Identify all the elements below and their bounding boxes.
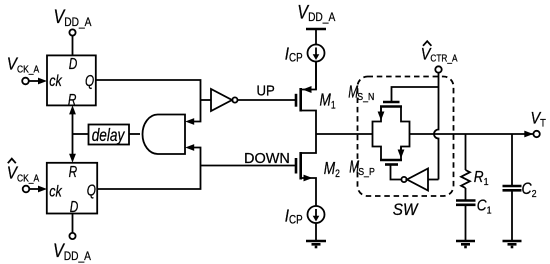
ground G-C2 xyxy=(503,240,522,243)
wire CP output node to switch xyxy=(316,133,373,135)
svg-text:S_N: S_N xyxy=(357,90,374,102)
flip-flop U1 box xyxy=(47,55,96,105)
wire VDD_A to U1 D xyxy=(72,36,74,56)
wire ICP1 to M1 drain xyxy=(315,62,317,90)
wire Q1 branch to inverter xyxy=(201,99,211,101)
resistor R1 xyxy=(461,170,470,188)
wire switch output to VT xyxy=(410,133,534,135)
svg-text:R1: R1 xyxy=(474,169,489,188)
svg-text:M2: M2 xyxy=(324,160,340,181)
transistor M2 (NMOS) xyxy=(295,158,298,174)
wire Q2 net: U2.Q to AND input xyxy=(97,148,200,190)
wire control line vertical with hop over output xyxy=(434,73,439,180)
svg-text:R: R xyxy=(69,162,78,180)
terminal VCK_A_hat xyxy=(23,186,30,193)
svg-text:VCK_A: VCK_A xyxy=(7,162,40,183)
flip-flop U2 box xyxy=(47,163,97,214)
wire VCK_A to U1 ck xyxy=(29,80,40,82)
wire VDD rail to ICP1 xyxy=(315,29,317,45)
svg-text:C1: C1 xyxy=(477,197,492,216)
wire UP: inverter to M1 gate xyxy=(238,99,296,101)
svg-text:D: D xyxy=(69,54,78,72)
wire DOWN: Q2 net to M2 gate xyxy=(201,165,296,167)
terminal VCTR_A xyxy=(435,66,441,72)
wire inverter input from control line xyxy=(428,179,439,181)
svg-text:UP: UP xyxy=(257,82,275,99)
transmission gate body wires xyxy=(373,107,382,161)
TG NMOS arrow xyxy=(380,107,382,113)
terminal VDD_A top-left xyxy=(69,29,75,35)
svg-text:D: D xyxy=(70,197,79,215)
wire VT node to R1 xyxy=(465,134,467,170)
svg-text:VCK_A: VCK_A xyxy=(7,53,40,74)
svg-text:R: R xyxy=(68,90,77,108)
AND gate G1 (mirrored, output left) xyxy=(143,115,186,155)
current source ICP2 xyxy=(308,206,325,223)
svg-text:VT: VT xyxy=(531,110,546,130)
power rail bar VDD_A xyxy=(306,28,326,31)
svg-text:Q: Q xyxy=(85,71,94,89)
wire VT node to C2 xyxy=(511,134,513,186)
wire Q1 net: U1.Q to inverter and AND input xyxy=(96,80,201,122)
MS_N gate wire to control xyxy=(392,87,439,102)
svg-text:SW: SW xyxy=(393,200,419,219)
svg-text:ck: ck xyxy=(49,73,62,91)
capacitor C1 xyxy=(456,199,476,202)
svg-text:VDD_A: VDD_A xyxy=(53,240,91,263)
svg-text:VDD_A: VDD_A xyxy=(297,1,335,24)
transistor M1 (PMOS) xyxy=(295,94,298,107)
inverter U4 (SW control) xyxy=(407,169,428,191)
wire reset line to delay xyxy=(73,133,89,135)
inverter U3 (UP buffer) xyxy=(211,89,232,111)
wire ICP2 to ground xyxy=(315,223,317,241)
svg-text:C2: C2 xyxy=(522,180,537,200)
svg-text:M1: M1 xyxy=(320,91,336,112)
wire reset line between U1.R and U2.R xyxy=(72,111,74,157)
transmission gate MS_P (PMOS) xyxy=(385,163,398,166)
terminal VT xyxy=(533,131,539,137)
MS_P gate wire to inverter output xyxy=(391,165,402,180)
wire R1 to C1 xyxy=(465,188,467,201)
delay block xyxy=(89,125,130,145)
transmission gate MS_N (NMOS) xyxy=(383,101,400,104)
wire C1 to ground xyxy=(465,205,467,241)
svg-text:VCTR_A: VCTR_A xyxy=(421,45,458,63)
ground G-C1 xyxy=(456,240,475,243)
wire VCK_A_hat to U2 ck xyxy=(29,188,39,190)
dashed box SW xyxy=(358,77,454,197)
terminal VDD_A bottom-left xyxy=(69,233,75,239)
svg-text:ck: ck xyxy=(49,183,62,201)
TG PMOS arrow xyxy=(400,147,402,151)
svg-text:Q: Q xyxy=(87,181,96,199)
svg-text:S_P: S_P xyxy=(358,165,375,177)
ground G-CP xyxy=(306,240,326,243)
svg-text:DOWN: DOWN xyxy=(244,151,290,167)
svg-text:VDD_A: VDD_A xyxy=(54,6,92,29)
svg-text:ICP: ICP xyxy=(285,205,303,226)
wire delay to AND gate xyxy=(129,133,140,135)
capacitor C2 xyxy=(503,185,522,188)
current source ICP1 xyxy=(308,45,325,62)
svg-text:ICP: ICP xyxy=(285,43,303,64)
terminal VCK_A xyxy=(22,78,29,85)
svg-text:delay: delay xyxy=(92,126,126,145)
wire U2 D to VDD_A xyxy=(72,214,74,233)
wire C2 to ground xyxy=(511,190,513,241)
